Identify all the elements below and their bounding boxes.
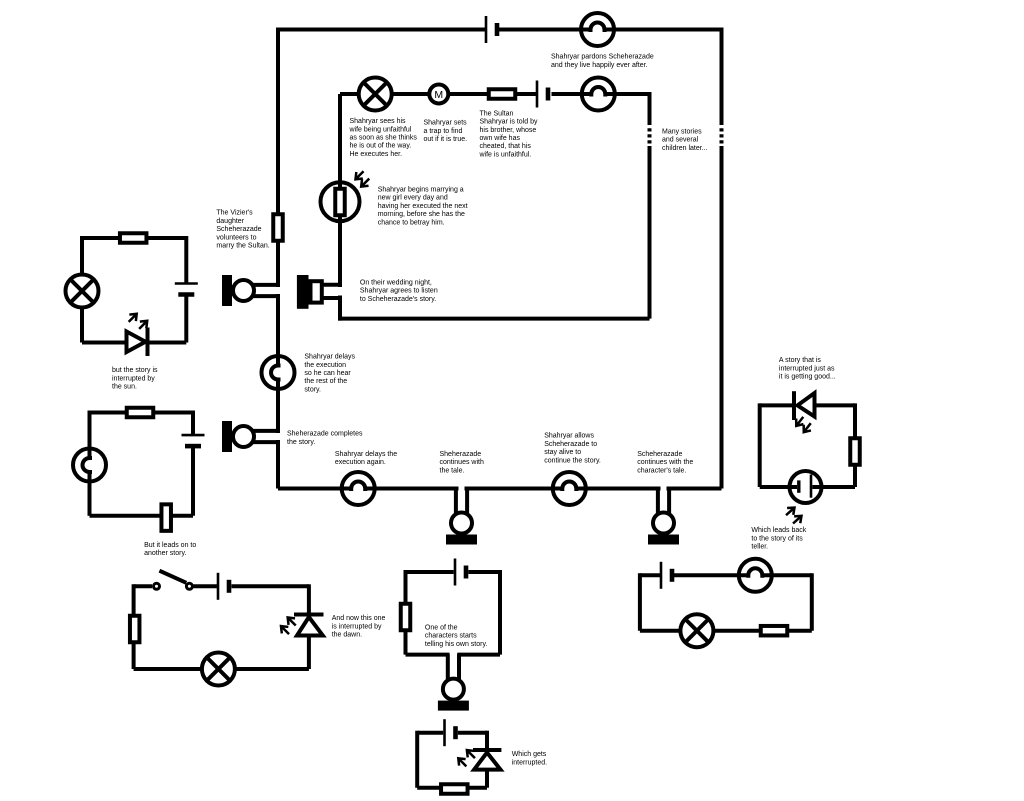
svg-text:wife is unfaithful.: wife is unfaithful.: [479, 151, 532, 158]
note "Shahryar sets a trap": [424, 120, 468, 143]
LED D3 "Which gets interrupted" (C5 right): [455, 747, 501, 770]
svg-text:wife being unfaithful: wife being unfaithful: [349, 126, 412, 133]
wire: C1 right edge upper: [184, 236, 188, 283]
wire: outer loop bottom edge, left segment: [278, 487, 351, 491]
svg-text:own wife has: own wife has: [480, 135, 521, 142]
wire: C3 top edge left: [134, 584, 152, 588]
svg-text:Many stories: Many stories: [662, 129, 702, 136]
note "The Vizier's daughter": [216, 210, 269, 250]
note "Shahryar begins marrying a new girl": [378, 187, 468, 227]
svg-text:stay alive to: stay alive to: [544, 449, 581, 456]
bell A7 (C7 top): [739, 559, 772, 592]
wire: C4 right edge: [498, 570, 502, 655]
wire: inner loop top edge, right of bell: [605, 92, 649, 96]
battery B7 (C5 top): [445, 719, 456, 746]
lamp L3 (C3 bottom): [202, 653, 235, 686]
svg-text:and they live happily ever aft: and they live happily ever after.: [551, 62, 648, 69]
wire: C5 bottom edge: [417, 786, 487, 790]
LED D2 "interrupted by the dawn" (C3 right): [278, 614, 324, 637]
svg-text:the sun.: the sun.: [112, 384, 137, 391]
wire: C7 right edge: [810, 573, 814, 630]
wire: C4 left edge: [404, 570, 408, 655]
wire: C1 top edge: [82, 236, 186, 240]
wire: C6 bottom edge right: [812, 485, 855, 489]
wire: C5 left edge: [415, 731, 419, 788]
wire: C5 top edge left: [417, 731, 443, 735]
note "Many stories and several children later": [662, 129, 708, 152]
wire: C2 left edge upper: [88, 411, 92, 459]
wire: outer loop left edge, between bell and mic1: [276, 294, 280, 366]
svg-text:Shahryar delays the: Shahryar delays the: [335, 451, 397, 458]
wire: outer loop bottom edge, between left bell and mic: [365, 487, 458, 491]
resistor R3 (C1 top): [120, 233, 147, 243]
svg-text:the dawn.: the dawn.: [332, 632, 362, 639]
lamp L1 "Shahryar sees his wife" (inner loop top): [359, 78, 392, 111]
note "Shahryar delays the execution": [304, 354, 355, 394]
svg-text:marry the Sultan.: marry the Sultan.: [216, 243, 269, 250]
wire: inner loop left edge, lower part: [338, 296, 342, 321]
svg-text:a trap to find: a trap to find: [424, 128, 463, 135]
svg-text:Shahryar sets: Shahryar sets: [424, 120, 468, 127]
bell A1 "Shahryar pardons" (outer loop top): [581, 13, 614, 46]
microphone M3 "Sheherazade continues with the tale" (hanging): [446, 488, 477, 545]
svg-text:the tale.: the tale.: [440, 467, 465, 474]
wire: C3 bottom edge: [134, 667, 309, 671]
wire: C3 left edge: [132, 584, 136, 669]
wire: outer loop right edge, upper solid part: [720, 28, 724, 126]
wire: C3 top edge right: [232, 584, 309, 588]
svg-text:to Scheherazade's story.: to Scheherazade's story.: [360, 296, 436, 303]
svg-text:it is getting good...: it is getting good...: [779, 374, 836, 381]
wire: C1 right edge lower: [184, 297, 188, 343]
note "Scheherazade continues with the character's tale": [637, 451, 693, 474]
svg-text:continue the story.: continue the story.: [544, 457, 601, 464]
svg-text:but the story is: but the story is: [112, 367, 158, 374]
svg-text:And now this one: And now this one: [332, 615, 386, 622]
svg-text:Scheherazade: Scheherazade: [216, 226, 261, 233]
LED D1 "interrupted by the sun" (C1 bottom): [125, 311, 150, 356]
wire: outer loop right edge dashed break: [720, 128, 724, 143]
svg-text:Shahryar sees his: Shahryar sees his: [350, 118, 407, 125]
wire: C7 top edge left: [640, 573, 660, 577]
bell A6 (C2 left): [73, 449, 106, 482]
svg-text:Which leads back: Which leads back: [751, 527, 806, 534]
svg-text:the story.: the story.: [287, 439, 315, 446]
lamp L2 (C1 left): [66, 275, 99, 308]
wire: C2 left edge lower: [88, 472, 92, 516]
wire: C6 left edge: [758, 403, 762, 487]
battery B4 (C2 right): [182, 435, 205, 446]
wire: C2 bottom edge: [90, 514, 194, 518]
wire: C1 bottom edge right: [150, 341, 187, 345]
svg-text:teller.: teller.: [751, 544, 768, 551]
resistor R1 "The Vizier's daughter volunteers" (outer loop left edge): [273, 214, 283, 241]
wire: C2 right edge upper: [191, 411, 195, 435]
svg-text:character's tale.: character's tale.: [637, 467, 686, 474]
wire: outer loop top edge, left of battery: [278, 28, 485, 32]
note "Shahryar pardons Scheherazade": [551, 54, 654, 69]
svg-text:The Sultan: The Sultan: [480, 110, 514, 117]
wire: C6 top edge right: [816, 403, 856, 407]
svg-text:having her executed the next: having her executed the next: [378, 203, 468, 210]
wire: inner loop top edge, left part: [340, 92, 536, 96]
svg-text:Sheherazade: Sheherazade: [440, 451, 482, 458]
svg-text:to the story of its: to the story of its: [751, 535, 803, 542]
resistor R6 (C3 left): [130, 616, 140, 643]
resistor R8 (C5 bottom): [441, 784, 468, 794]
note "But it leads on to another story": [144, 542, 196, 557]
note "Sheherazade continues with the tale": [440, 451, 484, 474]
wire: inner loop right edge dashed break "Many stories later": [648, 128, 652, 143]
battery B5 (C3 top): [218, 573, 229, 600]
lamp L4 (C7 bottom): [680, 614, 713, 647]
svg-text:the execution: the execution: [304, 362, 346, 369]
svg-text:Shahryar agrees to listen: Shahryar agrees to listen: [360, 288, 438, 295]
battery B2 (inner loop top): [537, 81, 548, 108]
wire: C6 right edge: [853, 403, 857, 487]
battery B3 (C1 right): [175, 284, 198, 295]
svg-text:A story that is: A story that is: [779, 357, 822, 364]
note "Shahryar sees his wife being unfaithful": [349, 118, 418, 158]
svg-text:Scheherazade to: Scheherazade to: [544, 441, 597, 448]
bell A5 "happily ever after" (inner loop top right): [582, 78, 615, 111]
wire: C4 bottom edge left: [406, 653, 450, 657]
wire: outer loop bottom edge, right segment: [667, 487, 722, 491]
svg-text:interrupted.: interrupted.: [512, 759, 547, 766]
wire: C7 bottom edge: [640, 629, 812, 633]
wire: inner loop right edge, upper solid part: [648, 92, 652, 125]
svg-text:another story.: another story.: [144, 550, 186, 557]
wire: C1 left edge: [80, 236, 84, 343]
svg-text:But it leads on to: But it leads on to: [144, 542, 196, 549]
note "Sheherazade completes the story": [287, 431, 363, 446]
wire: C6 top edge left: [760, 403, 792, 407]
svg-text:out if it is true.: out if it is true.: [424, 136, 468, 143]
svg-text:characters starts: characters starts: [425, 633, 477, 640]
svg-text:is interrupted by: is interrupted by: [332, 623, 382, 630]
svg-text:morning, before she has the: morning, before she has the: [378, 211, 465, 218]
wire: C3 top edge mid: [194, 584, 218, 588]
svg-text:and several: and several: [662, 137, 699, 144]
resistor R7 (C4 left): [401, 604, 411, 631]
svg-text:continues with: continues with: [440, 459, 484, 466]
wire: outer loop left edge, between mic2 and bell: [276, 380, 280, 434]
note "The Sultan Shahryar is told": [479, 110, 538, 158]
wire: C5 top edge right: [458, 731, 487, 735]
switch SW1 (C3 top): [154, 571, 193, 590]
svg-text:On their wedding night,: On their wedding night,: [360, 279, 432, 286]
resistor R9 (C6 right): [850, 438, 860, 465]
wire: outer loop top edge, battery to bell: [499, 28, 591, 32]
wire: inner loop bottom edge: [338, 317, 650, 321]
svg-text:One of the: One of the: [425, 624, 458, 631]
battery B1 (outer loop top): [486, 16, 497, 43]
wire: outer loop left edge, top part with resistor: [276, 440, 280, 489]
note "but the story is interrupted by the sun": [112, 367, 158, 390]
svg-text:Shahryar pardons Scheherazade: Shahryar pardons Scheherazade: [551, 54, 654, 61]
wire: C2 top edge: [90, 411, 194, 415]
note "Which leads back to the story of its teller": [751, 527, 806, 550]
wire: C4 top edge right: [468, 570, 500, 574]
svg-text:Shahryar allows: Shahryar allows: [544, 433, 594, 440]
LED D4 "A story that is interrupted" (C6 top): [793, 391, 815, 435]
resistor R5 "But it leads on to another story" (C2 bottom): [161, 504, 171, 531]
wire: inner loop top edge, battery to bell: [552, 92, 592, 96]
svg-text:new girl every day and: new girl every day and: [378, 195, 448, 202]
wire: outer loop top edge, right of bell: [605, 28, 722, 32]
microphone M1 "On their wedding night" listen (left edge): [222, 275, 279, 306]
svg-text:cheated, that his: cheated, that his: [480, 143, 532, 150]
note "Shahryar allows Scheherazade to stay alive": [544, 433, 601, 465]
wire: C4 top edge left: [406, 570, 454, 574]
svg-text:as soon as she thinks: as soon as she thinks: [350, 135, 418, 142]
svg-text:Shahryar is told by: Shahryar is told by: [480, 119, 538, 126]
svg-text:interrupted by: interrupted by: [112, 375, 155, 382]
svg-text:The Vizier's: The Vizier's: [216, 210, 253, 217]
svg-text:He executes her.: He executes her.: [350, 151, 403, 158]
bell A3 "Shahryar allows Scheherazade to stay alive" (outer loop bottom): [553, 472, 586, 505]
svg-text:Which gets: Which gets: [512, 751, 547, 758]
wire: C1 bottom edge left: [82, 341, 125, 345]
battery B8 (C7 top): [661, 562, 672, 589]
svg-text:he is out of the way.: he is out of the way.: [350, 143, 412, 150]
svg-text:continues with the: continues with the: [637, 459, 693, 466]
svg-text:telling his own story.: telling his own story.: [425, 641, 488, 648]
wire: outer loop bottom edge, between bell and mic: [576, 487, 660, 491]
wire: inner loop left edge, upper part: [338, 94, 342, 287]
svg-text:Shahryar delays: Shahryar delays: [304, 354, 355, 361]
svg-text:the rest of the: the rest of the: [304, 378, 347, 385]
wire: C4 bottom edge right: [457, 653, 500, 657]
resistor R4 (C2 top): [127, 408, 154, 418]
wire: C7 left edge: [638, 573, 642, 630]
bell A2 "Shahryar delays the execution again" (outer loop bottom): [342, 472, 375, 505]
note "On their wedding night": [360, 279, 438, 302]
note "Which gets interrupted": [512, 751, 547, 766]
microphone M5 (hanging below C4): [438, 654, 469, 711]
wire: inner loop right edge, lower solid part: [648, 146, 652, 319]
svg-text:chance to betray him.: chance to betray him.: [378, 219, 445, 226]
wire: outer loop left edge, upper part: [276, 28, 280, 288]
wire: C3 right edge lower: [307, 636, 311, 670]
wire: C6 bottom edge left: [760, 485, 797, 489]
svg-text:children later...: children later...: [662, 145, 708, 152]
svg-text:story.: story.: [304, 386, 321, 393]
LDR "Shahryar begins marrying a new girl every day" (inner loop left): [321, 168, 373, 221]
resistor R10 (C7 bottom): [761, 626, 788, 636]
svg-text:daughter: daughter: [216, 218, 244, 225]
svg-text:execution again.: execution again.: [335, 459, 386, 466]
svg-text:M: M: [434, 89, 443, 101]
svg-text:interrupted just as: interrupted just as: [779, 365, 835, 372]
svg-text:his brother, whose: his brother, whose: [480, 127, 537, 134]
svg-text:volunteers to: volunteers to: [216, 234, 256, 241]
wire: C3 right edge upper: [307, 584, 311, 612]
note "One of the characters starts telling his own story": [425, 624, 488, 647]
wire: C5 right edge lower: [485, 770, 489, 788]
wire: C2 right edge lower: [191, 448, 195, 516]
loudspeaker S1 "agrees to listen to Scheherazade's story" (inner loop left): [297, 275, 342, 309]
wire: outer loop bottom edge, mid segment: [465, 487, 563, 491]
note "Shahryar delays the execution again": [335, 451, 397, 466]
note "A story that is interrupted just as it is getting good": [779, 357, 836, 380]
svg-text:Scheherazade: Scheherazade: [637, 451, 682, 458]
svg-text:Shahryar begins marrying a: Shahryar begins marrying a: [378, 187, 464, 194]
microphone M2 "Sheherazade completes the story" (left edge): [222, 421, 279, 452]
microphone M4 "Scheherazade continues with the character's tale" (hanging): [648, 488, 679, 545]
bell A4 "Shahryar delays the execution" (outer loop left edge): [262, 356, 295, 389]
solar cell SC1 "Which leads back to the story of its teller" (C6 bottom): [783, 471, 822, 527]
svg-text:Sheherazade completes: Sheherazade completes: [287, 431, 363, 438]
resistor R2 "The Sultan is told" (inner loop top): [489, 89, 516, 99]
motor M "Shahryar sets a trap" (inner loop top): [429, 85, 448, 104]
wire: C5 right edge upper: [485, 731, 489, 748]
note "And now this one is interrupted by the dawn": [332, 615, 386, 638]
battery B6 (C4 top): [455, 559, 466, 586]
wire: C7 top edge mid: [674, 573, 748, 577]
wire: C7 top edge right: [762, 573, 812, 577]
svg-text:so he can hear: so he can hear: [304, 370, 351, 377]
wire: outer loop right edge, lower solid part: [720, 146, 724, 489]
